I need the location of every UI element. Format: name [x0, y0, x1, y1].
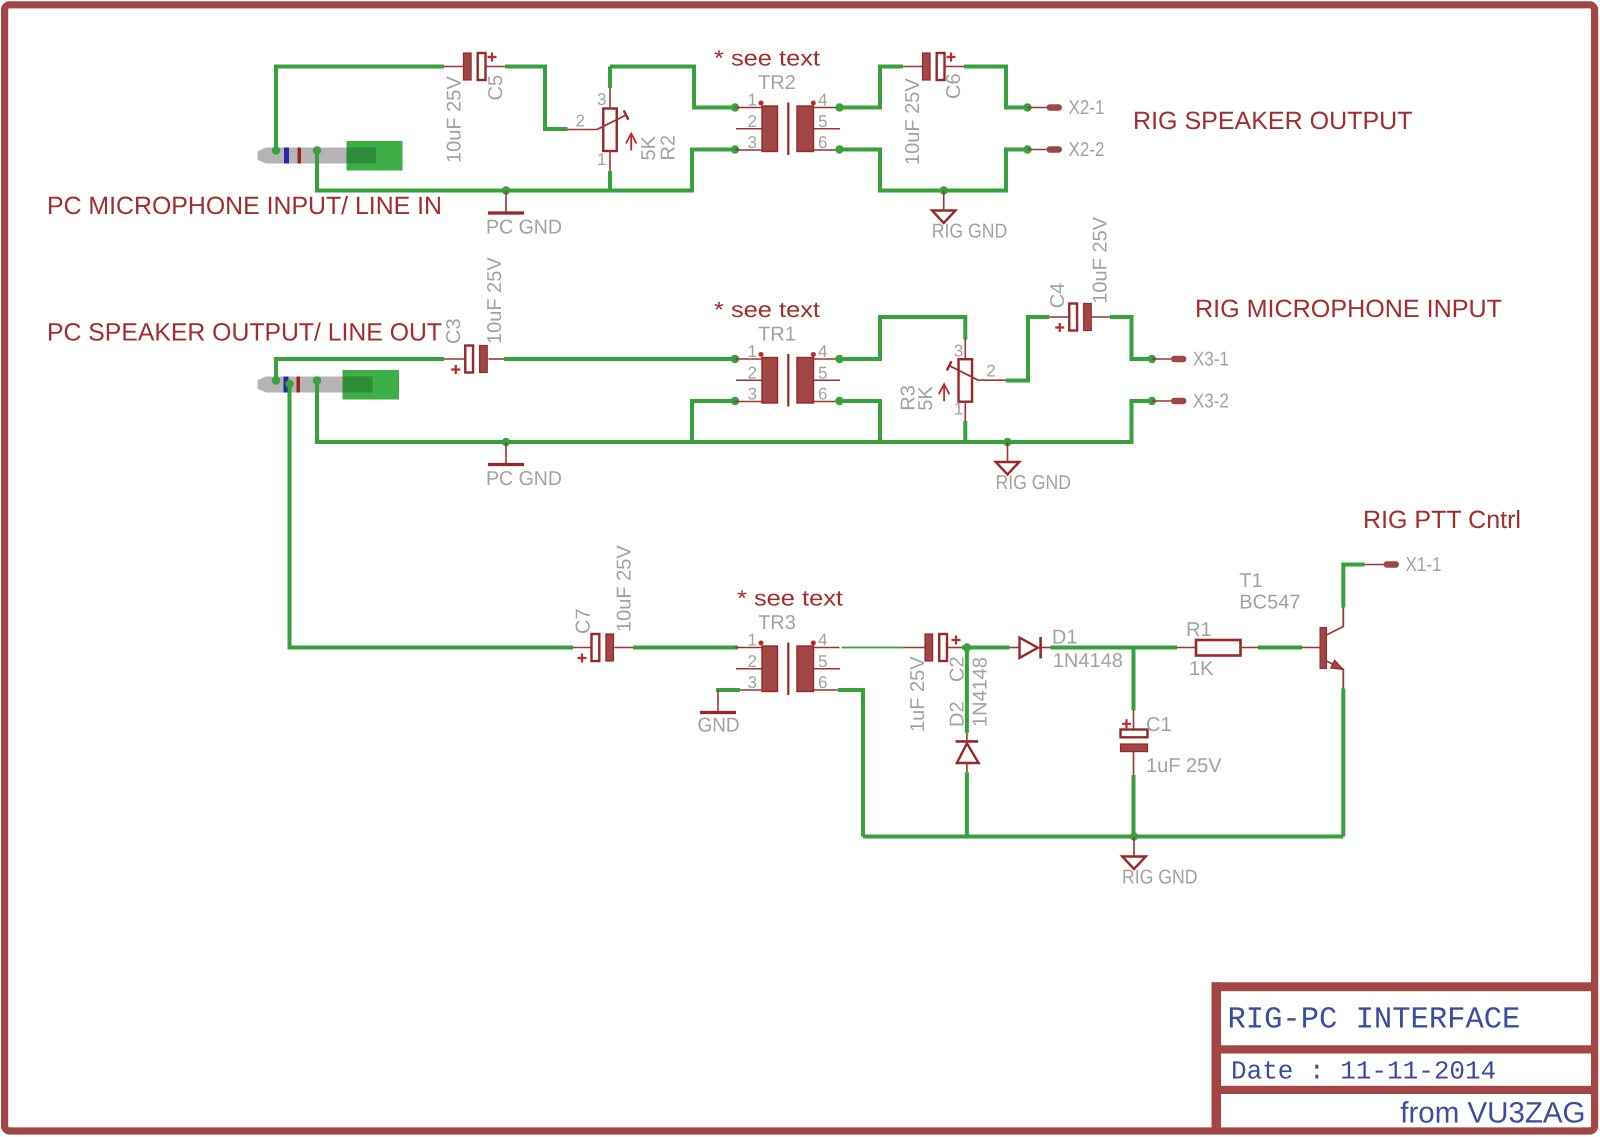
svg-text:10uF 25V: 10uF 25V: [1090, 216, 1112, 303]
svg-text:RIG SPEAKER OUTPUT: RIG SPEAKER OUTPUT: [1133, 107, 1413, 135]
svg-text:6: 6: [818, 385, 827, 404]
wire C2 to D1: [962, 646, 1009, 650]
wire jack2 tip to C3: [276, 359, 444, 381]
svg-text:TR3: TR3: [758, 612, 796, 634]
junction RIG GND tap 3: [1130, 832, 1138, 840]
svg-text:C7: C7: [572, 608, 594, 634]
svg-text:2: 2: [986, 362, 995, 381]
svg-text:RIG GND: RIG GND: [1122, 867, 1198, 889]
wire TR3 pin6 down: [838, 690, 863, 837]
transistor T1 BC547 (NPN): [1302, 608, 1343, 689]
wire jack1 tip to C5: [276, 67, 444, 151]
wire R3 pin2 to C4: [1006, 317, 1050, 381]
svg-text:1: 1: [748, 342, 757, 361]
wire TR3 pin4 to C2 (thin): [842, 647, 904, 649]
ground symbol GND: [698, 690, 740, 737]
wire R1 to T1 base: [1258, 646, 1302, 650]
wire D2 to ground bus: [965, 772, 969, 836]
svg-text:* see text: * see text: [714, 46, 820, 71]
connector pin X3-2: [1148, 391, 1229, 413]
ground symbol PC GND: [486, 442, 562, 490]
3.5mm jack plug J1 (PC microphone input): [258, 141, 403, 171]
svg-text:PC GND: PC GND: [486, 468, 562, 490]
connector pin X2-1: [1023, 97, 1104, 119]
wire TR3 pin3 stub: [716, 688, 740, 692]
3.5mm jack plug J2 (PC speaker output): [258, 370, 400, 400]
svg-text:RIG MICROPHONE INPUT: RIG MICROPHONE INPUT: [1195, 295, 1502, 323]
wire C3 to TR1 pin1: [504, 357, 735, 361]
svg-text:C5: C5: [485, 75, 507, 101]
capacitor C4: [1055, 304, 1091, 333]
wire ground bus to X3-2: [880, 401, 1152, 442]
transformer TR3: [735, 586, 843, 696]
wire junction to D2: [965, 648, 969, 733]
junction D2 tap: [963, 643, 971, 651]
R2 pin 2 lead: [568, 129, 598, 131]
capacitor C2: [925, 634, 961, 661]
C3 right lead: [489, 358, 505, 360]
wire R3 pin1 to ground bus: [963, 421, 967, 442]
svg-text:C3: C3: [443, 318, 465, 344]
junction TR1 pin1: [731, 355, 739, 363]
svg-text:D2: D2: [947, 701, 969, 727]
title block frame: [1212, 982, 1596, 1134]
svg-text:PC MICROPHONE INPUT/ LINE IN: PC MICROPHONE INPUT/ LINE IN: [47, 192, 442, 220]
wire TR2 pin4 to C6: [840, 67, 904, 108]
capacitor C7: [578, 634, 614, 663]
svg-text:RIG GND: RIG GND: [996, 472, 1072, 494]
svg-text:X2-1: X2-1: [1069, 97, 1105, 119]
wire jack1 sleeve to TR2 pin3: [317, 150, 735, 191]
svg-text:10uF 25V: 10uF 25V: [484, 257, 506, 344]
wire D1 to R1: [1051, 646, 1178, 650]
wire ground bus 3: [863, 835, 1343, 839]
connector pin X3-1: [1148, 349, 1229, 371]
C4 left lead: [1049, 316, 1069, 318]
connector pin X1-1: [1365, 554, 1442, 576]
C2 right lead: [947, 647, 962, 649]
connector pin X2-2: [1023, 139, 1104, 161]
ground symbol RIG GND: [1122, 837, 1198, 889]
svg-text:D1: D1: [1052, 627, 1078, 649]
svg-text:R2: R2: [657, 135, 679, 161]
svg-text:3: 3: [748, 673, 757, 692]
R2 pin 3 lead: [609, 88, 611, 109]
C2 left lead: [904, 647, 925, 649]
svg-text:4: 4: [818, 91, 827, 110]
wire C6 to X2-1: [964, 67, 1028, 108]
svg-text:C6: C6: [943, 73, 965, 99]
junction RIG GND tap: [940, 186, 948, 194]
C5 right lead: [486, 66, 505, 68]
junction TR2 pin4: [835, 103, 843, 111]
ground symbol RIG GND: [932, 191, 1008, 243]
svg-text:4: 4: [818, 342, 827, 361]
junction RIG GND tap 2: [1003, 438, 1011, 446]
svg-text:* see text: * see text: [737, 586, 843, 611]
wire R2 pin3 to TR2 pin1: [610, 67, 735, 108]
svg-text:2: 2: [748, 112, 757, 131]
wire R2 pin1 to ground bus: [608, 171, 612, 191]
svg-text:2: 2: [748, 652, 757, 671]
svg-text:X1-1: X1-1: [1406, 554, 1442, 576]
wire C7 to TR3 pin1: [633, 646, 738, 650]
svg-text:* see text: * see text: [714, 297, 820, 322]
svg-text:RIG GND: RIG GND: [932, 221, 1008, 243]
R3 pin 3 lead: [964, 339, 966, 360]
transformer TR1: [714, 297, 840, 407]
junction PC GND tap 2: [502, 438, 510, 446]
svg-text:6: 6: [818, 673, 827, 692]
svg-text:1: 1: [748, 91, 757, 110]
R3 pin 2 lead: [978, 379, 1006, 381]
junction TR2 pin1: [731, 103, 739, 111]
svg-text:1uF 25V: 1uF 25V: [1146, 755, 1222, 777]
svg-text:C1: C1: [1146, 714, 1172, 736]
potentiometer R3: [898, 339, 1006, 422]
diode D2 1N4148: [956, 733, 979, 772]
wire R2 pin3 stub: [608, 67, 612, 89]
svg-text:3: 3: [597, 90, 606, 109]
junction TR1 pin4: [835, 355, 843, 363]
C7 right lead: [615, 647, 634, 649]
junction jack1 sleeve: [313, 146, 321, 154]
svg-text:3: 3: [748, 133, 757, 152]
R3 pin 1 lead: [964, 402, 966, 422]
junction TR2 pin3: [731, 145, 739, 153]
svg-text:PC GND: PC GND: [486, 217, 562, 239]
capacitor C5: [464, 53, 497, 81]
wire C4 to X3-1: [1110, 317, 1152, 359]
svg-text:BC547: BC547: [1239, 592, 1300, 614]
svg-text:1: 1: [748, 631, 757, 650]
capacitor C6: [923, 53, 956, 81]
svg-text:GND: GND: [698, 715, 740, 737]
C3 left lead: [444, 358, 464, 360]
svg-text:10uF 25V: 10uF 25V: [443, 76, 465, 163]
svg-text:X3-2: X3-2: [1193, 391, 1229, 413]
C5 left lead: [444, 66, 463, 68]
svg-text:1N4148: 1N4148: [1053, 650, 1123, 672]
svg-text:4: 4: [818, 631, 827, 650]
junction TR2 pin6: [835, 145, 843, 153]
svg-text:10uF 25V: 10uF 25V: [902, 78, 924, 165]
svg-text:PC SPEAKER OUTPUT/ LINE OUT: PC SPEAKER OUTPUT/ LINE OUT: [47, 319, 442, 347]
ground symbol PC GND: [486, 191, 562, 239]
svg-text:2: 2: [748, 363, 757, 382]
wire jack2 sleeve to TR1 pin3: [317, 381, 735, 443]
svg-text:5: 5: [818, 652, 827, 671]
svg-text:6: 6: [818, 133, 827, 152]
junction TR1 pin3: [731, 397, 739, 405]
junction jack2 sleeve: [313, 376, 321, 384]
svg-text:X3-1: X3-1: [1193, 349, 1229, 371]
svg-text:5K: 5K: [915, 386, 937, 411]
junction TR1 pin6: [835, 397, 843, 405]
diode D1 1N4148: [1009, 637, 1050, 659]
svg-text:X2-2: X2-2: [1069, 139, 1105, 161]
svg-text:10uF 25V: 10uF 25V: [613, 545, 635, 632]
wire T1 collector to X1-1: [1343, 565, 1364, 608]
wire TR1 pin6 down to bus: [692, 401, 880, 442]
capacitor C3: [451, 346, 487, 375]
R2 pin 1 lead: [609, 151, 611, 171]
svg-text:from VU3ZAG: from VU3ZAG: [1400, 1097, 1585, 1130]
svg-text:2: 2: [576, 112, 585, 131]
resistor R1: [1177, 640, 1258, 656]
svg-text:Date : 11-11-2014: Date : 11-11-2014: [1231, 1057, 1496, 1087]
junction jack2 tip: [272, 376, 280, 384]
potentiometer R2: [568, 88, 680, 171]
wire T1 emitter to ground bus: [1341, 689, 1345, 837]
C4 right lead: [1091, 316, 1110, 318]
svg-text:T1: T1: [1239, 570, 1262, 592]
svg-text:3: 3: [954, 342, 963, 361]
svg-text:RIG PTT Cntrl: RIG PTT Cntrl: [1363, 506, 1521, 534]
C6 right lead: [945, 66, 965, 68]
junction PC GND tap: [502, 186, 510, 194]
svg-text:RIG-PC INTERFACE: RIG-PC INTERFACE: [1228, 1004, 1521, 1038]
wire TR2 pin6 to X2-2: [840, 150, 1028, 191]
svg-text:TR2: TR2: [758, 72, 796, 94]
transformer TR2: [714, 46, 840, 156]
svg-text:1K: 1K: [1189, 658, 1214, 680]
svg-text:1: 1: [597, 150, 606, 169]
capacitor C1 (vertical): [1121, 711, 1148, 776]
svg-text:1N4148: 1N4148: [970, 657, 992, 727]
junction jack2 ring: [285, 380, 293, 388]
wire C1 to ground bus: [1132, 775, 1136, 837]
junction jack1 tip: [272, 146, 280, 154]
svg-text:R1: R1: [1186, 619, 1212, 641]
ground symbol RIG GND: [996, 442, 1072, 494]
C6 left lead: [903, 66, 923, 68]
svg-text:5: 5: [818, 363, 827, 382]
svg-text:3: 3: [748, 385, 757, 404]
wire C5 to R2 pin2: [505, 67, 568, 130]
C7 left lead: [573, 647, 591, 649]
svg-text:C4: C4: [1047, 283, 1069, 309]
svg-text:TR1: TR1: [758, 324, 796, 346]
wire down to C1: [1132, 648, 1136, 711]
wire TR1 pin4 to R3 pin3: [840, 317, 966, 359]
svg-text:1: 1: [954, 400, 963, 419]
svg-text:1uF 25V: 1uF 25V: [907, 656, 929, 732]
svg-text:5: 5: [818, 112, 827, 131]
wire jack2 ring to C7: [290, 384, 574, 648]
